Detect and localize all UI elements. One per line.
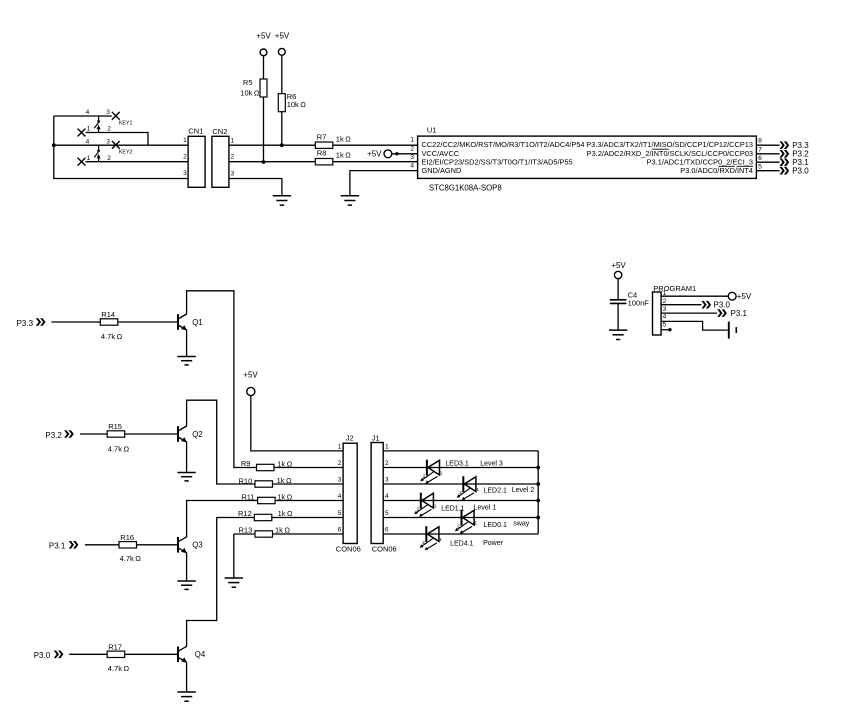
- resistor R16: [119, 533, 141, 563]
- ground: [225, 578, 243, 587]
- svg-text:R7: R7: [317, 132, 327, 141]
- svg-text:2: 2: [457, 523, 460, 529]
- wire: [54, 116, 188, 179]
- svg-text:CON06: CON06: [336, 545, 361, 554]
- svg-text:2: 2: [417, 506, 420, 512]
- svg-text:4.7k Ω: 4.7k Ω: [101, 332, 123, 341]
- resistor R6: [278, 92, 306, 112]
- svg-text:Level 3: Level 3: [480, 461, 503, 468]
- wire: [274, 467, 343, 469]
- wire: [125, 433, 178, 435]
- svg-text:R15: R15: [108, 422, 122, 431]
- svg-text:P3.0: P3.0: [714, 301, 731, 310]
- LED LED0.1: [455, 510, 478, 534]
- svg-text:KEY2: KEY2: [119, 149, 133, 155]
- wire: [281, 55, 283, 93]
- svg-text:LED0.1: LED0.1: [484, 522, 507, 529]
- power +5V at U1 pin2: [367, 149, 418, 158]
- svg-text:P3.0: P3.0: [792, 167, 809, 176]
- wire J1 pin1 to LED bus: [383, 450, 538, 452]
- svg-text:P3.3: P3.3: [17, 319, 34, 328]
- svg-text:1k Ω: 1k Ω: [336, 135, 351, 144]
- wire LED0.1 anode to bus: [462, 516, 541, 520]
- svg-text:STC8G1K08A-SOP8: STC8G1K08A-SOP8: [429, 184, 502, 193]
- svg-text:PROGRAM1: PROGRAM1: [653, 284, 696, 293]
- svg-text:2: 2: [107, 126, 111, 133]
- svg-text:KEY1: KEY1: [119, 121, 133, 127]
- LED LED4.1: [420, 526, 443, 550]
- wire LED4.1 anode to bus: [426, 533, 538, 535]
- svg-text:7: 7: [758, 146, 762, 153]
- svg-text:LED4.1: LED4.1: [450, 541, 473, 548]
- label LED3.1 Level 3: [445, 461, 502, 468]
- svg-text:100nF: 100nF: [628, 298, 650, 307]
- connector J1: [371, 433, 397, 553]
- power +5V rail symbol (left): [256, 32, 271, 56]
- power +5V at PROGRAM1: [728, 292, 752, 301]
- wire: [281, 112, 283, 146]
- svg-text:6: 6: [338, 527, 342, 534]
- wire net row1: [229, 144, 315, 146]
- ground: [177, 473, 195, 481]
- svg-text:2: 2: [107, 155, 111, 162]
- LED LED3.1: [420, 460, 443, 484]
- resistor R15: [107, 422, 129, 453]
- label LED0.1 sway: [484, 521, 530, 530]
- resistor R7: [315, 132, 351, 148]
- wire PROGRAM1 pin3: [661, 312, 717, 314]
- junction: [280, 143, 284, 147]
- connector PROGRAM1: [653, 284, 697, 335]
- resistor R8: [315, 149, 351, 165]
- junction: [262, 160, 266, 164]
- svg-text:8: 8: [758, 138, 762, 145]
- ground: [177, 357, 195, 365]
- wire PROGRAM1 pin4 to ground: [661, 321, 728, 330]
- resistor R14: [100, 310, 122, 341]
- svg-text:4: 4: [86, 109, 90, 116]
- wire: [273, 483, 344, 485]
- wire J1 pin4 to LED1.1 cathode: [383, 500, 421, 502]
- svg-text:GND/AGND: GND/AGND: [422, 166, 462, 175]
- svg-text:3: 3: [410, 154, 414, 161]
- wire Q4 emitter: [186, 662, 188, 692]
- svg-text:R14: R14: [101, 310, 115, 319]
- svg-text:Q1: Q1: [192, 318, 202, 327]
- svg-text:Level 2: Level 2: [512, 487, 535, 494]
- wire U1 output to P3.2: [756, 153, 779, 155]
- resistor R10: [239, 476, 293, 487]
- LED LED1.1: [414, 493, 437, 517]
- transistor Q4: [178, 646, 206, 662]
- power +5V above C4: [611, 261, 626, 279]
- power +5V rail symbol (second): [275, 32, 290, 56]
- svg-text:1k Ω: 1k Ω: [336, 151, 351, 160]
- svg-text:+5V: +5V: [243, 370, 258, 379]
- resistor R13: [239, 525, 291, 537]
- wire net row2: [229, 161, 315, 163]
- svg-text:CON06: CON06: [372, 545, 397, 554]
- resistor R9: [241, 459, 293, 471]
- wire: [272, 517, 343, 519]
- svg-text:3: 3: [106, 138, 110, 145]
- svg-text:R8: R8: [317, 149, 327, 158]
- svg-text:+5V: +5V: [367, 149, 382, 158]
- label LED2.1 Level 2: [484, 487, 535, 495]
- wire GND/AGND pin4: [350, 171, 418, 196]
- svg-text:CN1: CN1: [188, 126, 203, 135]
- wire: [273, 533, 344, 535]
- ground: [273, 196, 291, 205]
- resistor R12: [238, 509, 293, 521]
- wire Q4 collector: [187, 518, 255, 647]
- wire: [333, 161, 418, 163]
- svg-text:P3.1: P3.1: [49, 541, 66, 550]
- wire LED3.1 anode to bus: [427, 466, 540, 470]
- svg-text:J2: J2: [346, 433, 354, 442]
- svg-text:4.7k Ω: 4.7k Ω: [108, 664, 130, 673]
- svg-text:3: 3: [183, 170, 187, 177]
- svg-text:2: 2: [459, 490, 462, 496]
- svg-text:P3.1: P3.1: [731, 309, 748, 318]
- svg-text:R17: R17: [108, 642, 122, 651]
- port arrow P3.1: [780, 158, 810, 167]
- svg-text:2: 2: [663, 298, 667, 305]
- connector CN1: [183, 126, 205, 187]
- svg-text:P3.2: P3.2: [45, 431, 62, 440]
- port arrow P3.3 input: [17, 318, 46, 328]
- svg-text:2: 2: [410, 146, 414, 153]
- svg-text:1: 1: [476, 487, 479, 493]
- svg-text:LED2.1: LED2.1: [484, 488, 507, 495]
- svg-text:Q2: Q2: [192, 430, 202, 439]
- wire Q3 emitter: [186, 553, 188, 581]
- wire: [333, 144, 418, 146]
- wire: [125, 653, 178, 655]
- junction: [52, 143, 56, 147]
- transistor Q1: [178, 314, 203, 330]
- wire Q1 collector: [187, 291, 257, 468]
- svg-text:5: 5: [338, 510, 342, 517]
- wire U1 output to P3.0: [756, 170, 779, 172]
- svg-text:6: 6: [385, 527, 389, 534]
- svg-text:4.7k Ω: 4.7k Ω: [108, 444, 130, 453]
- connector J2: [336, 433, 361, 553]
- wire: [51, 321, 100, 323]
- svg-text:2: 2: [183, 153, 187, 160]
- svg-text:1: 1: [87, 126, 91, 133]
- port arrow P3.3: [780, 141, 810, 150]
- svg-text:2: 2: [423, 473, 426, 479]
- wire: [263, 97, 265, 162]
- port arrow P3.1 (program): [717, 309, 747, 318]
- wire: [617, 279, 619, 300]
- switch KEY1: [54, 109, 148, 145]
- svg-text:1: 1: [385, 444, 389, 451]
- svg-text:Q4: Q4: [195, 650, 206, 659]
- svg-text:R16: R16: [120, 533, 134, 542]
- svg-text:R11: R11: [241, 492, 254, 501]
- wire net row3: [229, 179, 282, 196]
- svg-text:2: 2: [385, 460, 389, 467]
- port arrow P3.0 input: [34, 651, 64, 660]
- svg-text:1: 1: [338, 444, 342, 451]
- svg-text:J1: J1: [372, 433, 380, 442]
- svg-text:4: 4: [385, 493, 389, 500]
- svg-text:4: 4: [663, 314, 667, 321]
- port arrow P3.1 input: [49, 541, 79, 550]
- svg-text:3: 3: [663, 306, 667, 313]
- wire: [118, 321, 178, 323]
- svg-text:5: 5: [385, 510, 389, 517]
- svg-text:R9: R9: [241, 459, 251, 468]
- wire Q2 collector: [187, 400, 255, 484]
- port arrow P3.2: [780, 150, 810, 159]
- svg-text:4.7k Ω: 4.7k Ω: [120, 554, 142, 563]
- svg-text:LED3.1: LED3.1: [445, 461, 468, 468]
- svg-text:1: 1: [231, 138, 235, 145]
- wire Q2 emitter: [186, 442, 188, 473]
- wire R13 to ground: [234, 534, 255, 578]
- label LED4.1 Power: [450, 540, 504, 548]
- wire PROGRAM1 pin2: [661, 304, 701, 306]
- label LED1.1 Level 1: [441, 505, 496, 513]
- switch KEY2: [54, 138, 188, 165]
- svg-text:+5V: +5V: [275, 32, 290, 41]
- svg-text:Power: Power: [483, 540, 504, 547]
- IC U1 STC8G1K08A-SOP8: [410, 126, 762, 193]
- LED LED2.1: [457, 476, 480, 500]
- wire: [263, 56, 265, 79]
- svg-text:+5V: +5V: [737, 292, 752, 301]
- svg-text:3: 3: [338, 477, 342, 484]
- wire +5V to J2 pin1: [251, 396, 343, 451]
- connector CN2: [212, 127, 235, 188]
- ground: [609, 330, 627, 339]
- svg-text:+5V: +5V: [611, 261, 626, 270]
- svg-text:1: 1: [439, 537, 442, 543]
- svg-text:sway: sway: [513, 521, 529, 528]
- wire J1 pin5 to LED0.1 cathode: [383, 517, 461, 519]
- svg-text:1: 1: [410, 137, 414, 144]
- svg-text:+5V: +5V: [256, 32, 271, 41]
- svg-text:R10: R10: [239, 476, 253, 485]
- svg-text:3: 3: [385, 477, 389, 484]
- power +5V (LED supply): [243, 370, 258, 395]
- wire PROGRAM1 pin1 to +5V: [661, 295, 728, 297]
- svg-text:1k Ω: 1k Ω: [278, 509, 293, 518]
- wire J1 pin6 to LED4.1 cathode: [383, 533, 426, 535]
- port arrow P3.0: [780, 167, 810, 176]
- svg-text:1: 1: [474, 521, 477, 527]
- wire LED1.1 anode to bus: [421, 499, 540, 503]
- svg-text:R12: R12: [238, 509, 252, 518]
- wire U1 output to P3.3: [756, 144, 779, 146]
- svg-text:3: 3: [106, 109, 110, 116]
- wire: [137, 544, 179, 546]
- wire: [69, 653, 107, 655]
- svg-text:U1: U1: [427, 126, 437, 135]
- svg-text:6: 6: [758, 155, 762, 162]
- wire: [617, 304, 619, 330]
- wire: [85, 544, 119, 546]
- ground: [341, 196, 359, 205]
- transistor Q2: [178, 426, 203, 442]
- svg-text:5: 5: [663, 321, 667, 328]
- svg-text:10k Ω: 10k Ω: [287, 100, 307, 109]
- svg-text:4: 4: [86, 138, 90, 145]
- wire U1 output to P3.1: [756, 161, 779, 163]
- resistor R11: [241, 492, 292, 503]
- LED bus (anode rail): [537, 451, 539, 534]
- port arrow P3.2 input: [45, 430, 73, 440]
- svg-text:1: 1: [440, 471, 443, 477]
- svg-text:P3.0/ADC0/RXD/INT4: P3.0/ADC0/RXD/INT4: [680, 166, 753, 175]
- svg-text:1: 1: [87, 155, 91, 162]
- svg-text:Level 1: Level 1: [474, 505, 497, 512]
- resistor R17: [107, 642, 129, 673]
- ground (rotated): [729, 322, 737, 339]
- wire: [275, 500, 343, 502]
- svg-text:1: 1: [183, 137, 187, 144]
- ground: [177, 581, 195, 589]
- svg-text:4: 4: [410, 163, 414, 170]
- wire Q1 emitter: [186, 330, 188, 357]
- wire PROGRAM1 pin5 stub: [661, 328, 672, 331]
- svg-text:10k Ω: 10k Ω: [240, 88, 260, 97]
- transistor Q3: [178, 537, 203, 553]
- svg-text:2: 2: [422, 540, 425, 546]
- capacitor C4: [610, 291, 649, 308]
- svg-text:P3.0: P3.0: [34, 651, 51, 660]
- wire: [80, 433, 107, 435]
- svg-text:4: 4: [338, 493, 342, 500]
- svg-text:1: 1: [434, 504, 437, 510]
- svg-text:R13: R13: [239, 525, 253, 534]
- svg-text:Q3: Q3: [192, 541, 202, 550]
- wire J1 pin2 to LED3.1 cathode: [383, 467, 427, 469]
- svg-text:2: 2: [231, 154, 235, 161]
- svg-text:R5: R5: [243, 78, 253, 87]
- svg-text:1k Ω: 1k Ω: [275, 525, 290, 534]
- resistor R5: [240, 78, 267, 97]
- svg-text:CN2: CN2: [212, 127, 227, 136]
- wire Q3 collector: [187, 501, 258, 538]
- svg-text:5: 5: [758, 163, 762, 170]
- port arrow P3.0 (program): [701, 301, 730, 310]
- ground: [177, 692, 195, 701]
- wire J1 pin3 to LED2.1 cathode: [383, 483, 463, 485]
- svg-text:2: 2: [338, 460, 342, 467]
- svg-text:3: 3: [231, 170, 235, 177]
- wire LED2.1 anode to bus: [463, 482, 540, 486]
